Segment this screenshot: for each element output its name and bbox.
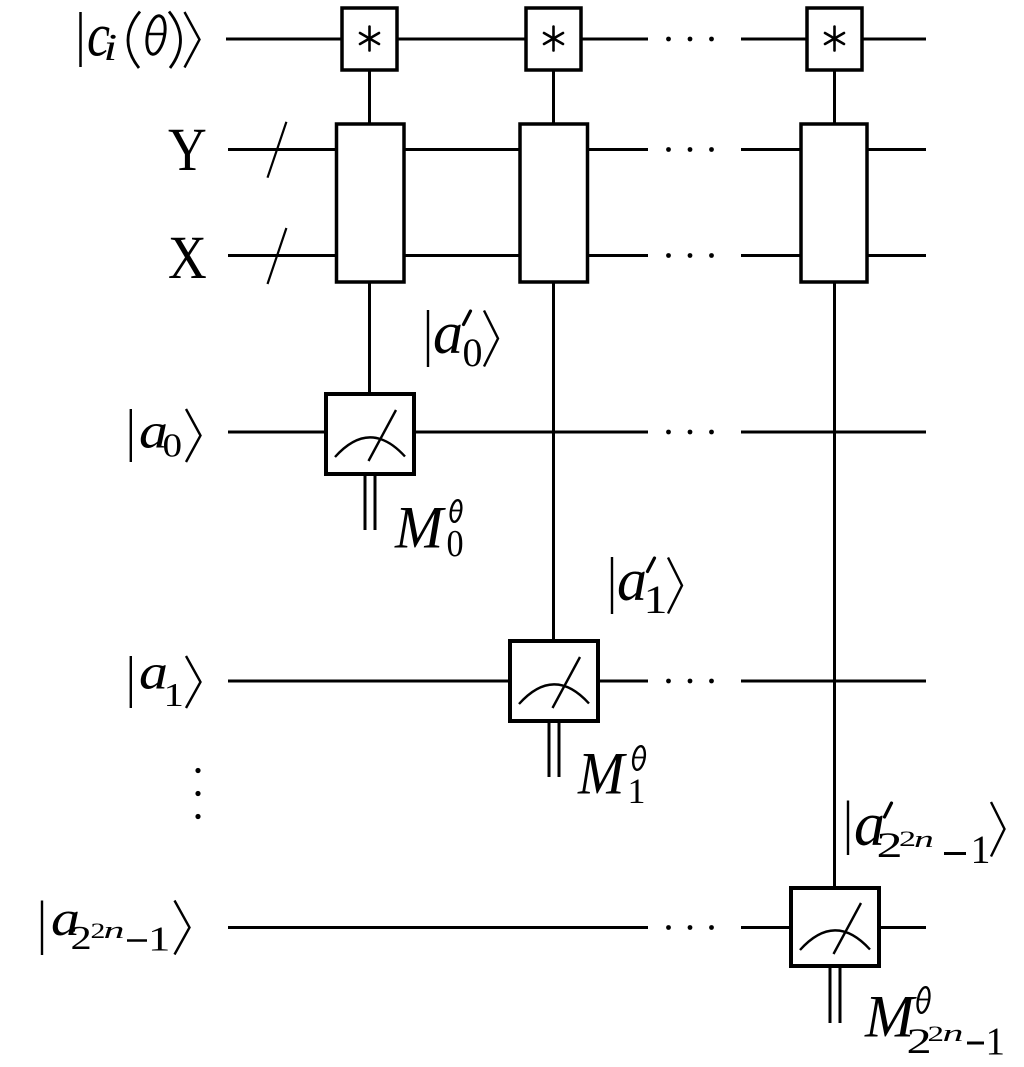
- wire c segment 1: [226, 38, 342, 41]
- wire a2 segment 2: [741, 926, 791, 929]
- unitary block U2: [520, 124, 588, 282]
- svg-text:2: 2: [71, 920, 92, 957]
- svg-text:a: a: [433, 300, 463, 366]
- label M1 theta: [577, 739, 647, 811]
- wire column1 control upper: [368, 70, 371, 124]
- svg-text:1: 1: [986, 1020, 1006, 1063]
- classical double line M1: [549, 721, 559, 777]
- label Y: [168, 117, 207, 184]
- wire X segment 2: [404, 254, 520, 257]
- label ket a0: [131, 403, 201, 464]
- gate box *1: [342, 8, 397, 70]
- label X: [168, 225, 207, 292]
- wire a1 segment 2: [598, 680, 648, 683]
- wire Y segment 2: [404, 148, 520, 151]
- svg-text:1: 1: [644, 578, 668, 622]
- svg-text:0: 0: [463, 330, 483, 375]
- svg-text:1: 1: [971, 827, 991, 872]
- wire a2 segment 1: [228, 926, 648, 929]
- bus slash on Y wire: [268, 122, 287, 178]
- ellipsis dots wire a0: [666, 430, 714, 435]
- svg-text:Y: Y: [168, 117, 207, 184]
- svg-text:M: M: [394, 493, 446, 560]
- wire a0 segment 2: [414, 431, 648, 434]
- svg-text:n: n: [943, 1021, 964, 1047]
- wire a1 segment 1: [228, 680, 510, 683]
- wire c segment 3: [581, 38, 648, 41]
- wire X segment 3: [588, 254, 649, 257]
- svg-text:1: 1: [628, 771, 646, 811]
- wire Y segment 1: [228, 148, 337, 151]
- svg-text:1: 1: [148, 919, 170, 958]
- wire c segment 2: [397, 38, 526, 41]
- label M_2^2n-1 theta: [864, 983, 1005, 1063]
- gate box *2: [526, 8, 581, 70]
- label ket a'0: [428, 300, 498, 375]
- wire Y segment 4: [741, 148, 801, 151]
- wire a2 segment 3: [879, 926, 926, 929]
- unitary block U3: [801, 124, 867, 282]
- ellipsis dots wire c: [666, 37, 714, 42]
- svg-text:X: X: [168, 225, 207, 292]
- measurement meter M1: [510, 641, 598, 721]
- wire column3 control upper: [833, 70, 836, 124]
- svg-text:i: i: [104, 26, 118, 68]
- svg-text:0: 0: [163, 426, 183, 464]
- label ket c_i(theta): [81, 3, 200, 70]
- wire c segment 5: [862, 38, 926, 41]
- bus slash on X wire: [268, 228, 287, 284]
- label ket a'_2^2n-1: [848, 791, 1005, 872]
- label ket a'1: [612, 547, 682, 622]
- wire Y segment 5: [867, 148, 926, 151]
- ellipsis dots wire a1: [666, 679, 714, 684]
- unitary block U1: [337, 124, 405, 282]
- wire c segment 4: [741, 38, 807, 41]
- wire column2 control lower: [552, 282, 555, 641]
- label ket a1: [131, 644, 201, 714]
- svg-text:M: M: [577, 739, 628, 807]
- ellipsis dots wire a2: [666, 925, 714, 930]
- svg-text:0: 0: [447, 522, 464, 564]
- label ket a_2^2n-1: [42, 891, 190, 959]
- gate box *3: [807, 8, 862, 70]
- wire a1 segment 3: [741, 680, 926, 683]
- svg-text:1: 1: [164, 677, 184, 714]
- wire X segment 4: [741, 254, 801, 257]
- wire column2 control upper: [552, 70, 555, 124]
- ellipsis dots wire X: [666, 253, 714, 258]
- wire X segment 5: [867, 254, 926, 257]
- measurement meter M2: [791, 888, 879, 966]
- svg-text:n: n: [914, 826, 934, 852]
- ellipsis dots wire Y: [666, 147, 714, 152]
- wire column3 control lower: [833, 282, 836, 888]
- wire a0 segment 1: [228, 431, 326, 434]
- wire Y segment 3: [588, 148, 649, 151]
- svg-text:a: a: [617, 547, 647, 613]
- measurement meter M0: [326, 394, 414, 474]
- vertical dots between a1 and a2: [195, 768, 200, 819]
- classical double line M2: [830, 966, 840, 1023]
- svg-text:n: n: [104, 918, 125, 944]
- wire column1 control lower: [368, 282, 371, 394]
- classical double line M0: [365, 474, 375, 530]
- wire a0 segment 3: [741, 431, 926, 434]
- wire X segment 1: [228, 254, 337, 257]
- label M0 theta: [394, 493, 464, 564]
